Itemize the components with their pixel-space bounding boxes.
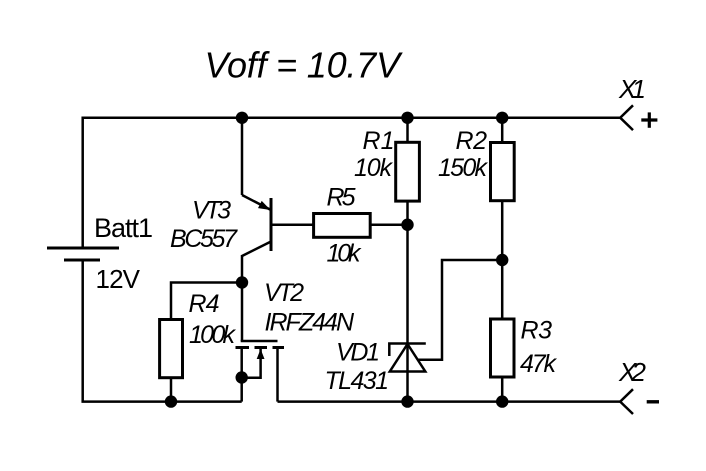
svg-text:R5: R5 <box>327 183 356 211</box>
label plus sign <box>641 112 657 127</box>
svg-text:BC557: BC557 <box>170 225 238 253</box>
wire R5 to node <box>370 224 407 227</box>
svg-text:R3: R3 <box>521 316 553 344</box>
svg-text:VT3: VT3 <box>192 197 231 225</box>
junction top R2 <box>496 112 508 124</box>
svg-text:100k: 100k <box>189 321 237 349</box>
wire VT2 body lead <box>242 349 261 378</box>
wire R2 top lead <box>501 118 504 143</box>
svg-text:Batt1: Batt1 <box>94 213 153 243</box>
resistor R4 body <box>160 320 183 378</box>
resistor R5 body <box>314 214 371 238</box>
svg-text:10k: 10k <box>354 154 394 182</box>
junction R2 R3 reference node <box>496 254 508 266</box>
wire bottom rail left <box>81 400 241 403</box>
transistor VT2 body segment <box>255 346 268 349</box>
svg-text:TL431: TL431 <box>325 367 390 395</box>
svg-text:R4: R4 <box>189 290 220 318</box>
junction VT2 source body node <box>236 371 248 383</box>
wire VT2 gate lead <box>241 283 244 342</box>
wire node to VD1 cathode <box>406 225 409 344</box>
svg-text:12V: 12V <box>96 264 141 294</box>
svg-text:47k: 47k <box>520 350 558 378</box>
junction R3 bottom <box>496 395 508 407</box>
junction top R1 <box>401 112 413 124</box>
junction top VT3 emitter <box>236 112 248 124</box>
wire left rail upper <box>81 116 84 248</box>
svg-text:R1: R1 <box>363 127 395 155</box>
wire R1 bottom lead <box>406 201 409 225</box>
svg-text:R2: R2 <box>456 127 488 155</box>
transistor VT3 base bar <box>270 198 273 251</box>
wire VT3 collector lead <box>241 255 244 283</box>
diode VD1 triangle <box>390 344 426 372</box>
svg-text:X2: X2 <box>618 357 647 387</box>
svg-text:150k: 150k <box>438 154 489 182</box>
wire top rail <box>83 116 620 119</box>
battery Batt1 plate positive <box>47 247 119 250</box>
wire bottom rail right <box>278 400 621 403</box>
wire R1 top lead <box>406 118 409 143</box>
transistor VT2 drain segment <box>273 346 285 349</box>
wire R2 bottom lead <box>501 201 504 260</box>
junction VD1 anode bottom <box>401 395 413 407</box>
connector X1 <box>620 105 633 130</box>
wire left rail lower <box>81 260 84 402</box>
wire VT3 emitter lead <box>241 118 244 195</box>
junction R5 R1 VD1 node <box>401 219 413 231</box>
wire R4 bottom lead <box>170 378 173 402</box>
wire VD1 reference <box>418 260 502 360</box>
transistor VT3 collector diagonal <box>242 242 270 256</box>
wire VD1 anode lead <box>406 344 409 402</box>
battery Batt1 plate negative <box>64 259 100 262</box>
wire R3 bottom lead <box>501 377 504 402</box>
transistor VT2 body arrowhead <box>257 349 265 359</box>
transistor VT2 source segment <box>236 346 250 349</box>
transistor VT3 emitter diagonal <box>242 195 270 210</box>
label minus sign <box>647 400 659 403</box>
resistor R3 body <box>491 319 515 377</box>
svg-text:10k: 10k <box>327 240 363 268</box>
transistor VT2 gate plate <box>241 340 278 343</box>
wire R4 top lead <box>171 283 242 320</box>
wire VT3 base lead <box>271 224 314 227</box>
connector X2 <box>620 389 633 414</box>
wire R2 R3 node to R3 <box>501 260 504 319</box>
transistor VT3 emitter arrowhead <box>258 201 271 210</box>
svg-text:VT2: VT2 <box>264 279 304 307</box>
wire VT2 drain lead <box>276 348 279 402</box>
svg-text:IRFZ44N: IRFZ44N <box>265 308 355 336</box>
svg-text:Voff = 10.7V: Voff = 10.7V <box>205 45 403 86</box>
resistor R1 body <box>396 142 420 201</box>
svg-text:X1: X1 <box>618 74 646 104</box>
junction VT3 collector gate R4 node <box>236 276 248 288</box>
resistor R2 body <box>491 143 515 201</box>
wire VT2 source lead <box>240 348 243 402</box>
diode VD1 cathode bar <box>389 344 426 357</box>
junction R4 bottom <box>165 395 177 407</box>
svg-text:VD1: VD1 <box>336 338 380 366</box>
